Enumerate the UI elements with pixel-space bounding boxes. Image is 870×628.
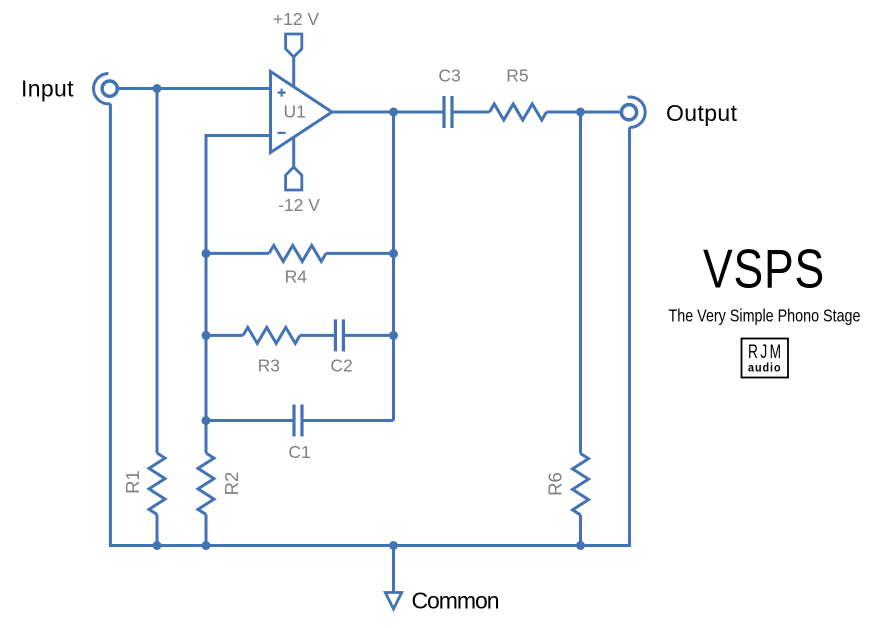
svg-text:U1: U1: [284, 102, 306, 122]
capacitor C3: [444, 96, 452, 128]
svg-text:R3: R3: [258, 355, 280, 375]
op-amp U1 plus input marker: [278, 89, 286, 97]
power flag -12V: [286, 167, 302, 190]
node input/R1 junction: [153, 84, 162, 93]
resistor R6: [573, 454, 589, 515]
node C2 right: [389, 331, 398, 340]
svg-text:C1: C1: [288, 442, 310, 462]
node R2 bottom: [202, 541, 211, 550]
svg-text:R2: R2: [221, 472, 242, 496]
wire R6 branch upper: [579, 112, 582, 454]
capacitor C1: [294, 405, 302, 437]
input connector J_in circle: [102, 81, 117, 96]
wire op-amp V- pin: [292, 138, 295, 167]
wire R2 lower: [205, 514, 208, 545]
node R3 left: [202, 331, 211, 340]
input connector J_in sleeve arc: [93, 74, 110, 104]
svg-text:C3: C3: [438, 65, 460, 85]
wire feedback right rail: [392, 112, 395, 421]
wire R4 left lead: [206, 252, 269, 255]
output connector J_out circle: [621, 105, 636, 120]
wire R3 to C2: [300, 334, 335, 337]
power flag +12V: [286, 34, 302, 57]
op-amp U1 triangle: [271, 72, 333, 153]
logo RJM audio box: [742, 339, 789, 378]
wire op-amp minus input to feedback rail: [206, 136, 271, 454]
svg-text:VSPS: VSPS: [703, 237, 825, 299]
wire C1 right lead: [302, 419, 394, 422]
node R1 bottom: [153, 541, 162, 550]
svg-text:-12 V: -12 V: [278, 195, 320, 215]
wire R6 lower: [579, 515, 582, 546]
wire R1 branch upper: [156, 89, 159, 454]
wire C1 left lead: [206, 419, 294, 422]
svg-text:R1: R1: [122, 470, 143, 494]
capacitor C2: [335, 319, 343, 351]
ground common triangle: [385, 593, 401, 610]
resistor R5: [490, 104, 547, 120]
wire ground run: input drop, bottom rail, output drop: [110, 104, 629, 546]
wire R5 to output connector: [547, 111, 620, 114]
resistor R1: [149, 453, 165, 514]
svg-text:C2: C2: [330, 355, 352, 375]
wire input to op-amp + input: [119, 87, 271, 90]
svg-text:+12 V: +12 V: [273, 9, 320, 29]
wire C3 to R5: [452, 111, 490, 114]
wire R3 left lead: [206, 334, 243, 337]
svg-text:R5: R5: [506, 65, 528, 85]
node R4 left: [202, 249, 211, 258]
wire common stub: [392, 546, 395, 593]
wire R1 branch lower: [156, 514, 159, 545]
wire op-amp output to C3: [332, 111, 444, 114]
svg-text:audio: audio: [748, 360, 782, 374]
svg-text:Input: Input: [21, 76, 74, 102]
resistor R3: [243, 327, 300, 343]
output connector J_out sleeve arc: [628, 97, 646, 127]
resistor R2: [198, 453, 214, 514]
node C1 left: [202, 416, 211, 425]
svg-text:The Very Simple Phono Stage: The Very Simple Phono Stage: [669, 306, 861, 326]
node R5/R6 junction: [576, 108, 585, 117]
node R6 bottom: [576, 541, 585, 550]
resistor R4: [269, 245, 326, 261]
wire R4 right lead: [326, 252, 394, 255]
op-amp U1 minus input marker: [278, 132, 286, 134]
node op-amp output junction: [389, 108, 398, 117]
svg-text:R4: R4: [285, 266, 308, 286]
svg-text:R6: R6: [545, 472, 566, 496]
node common junction: [389, 541, 398, 550]
node R4 right: [389, 249, 398, 258]
svg-text:Output: Output: [666, 100, 738, 126]
wire C2 right lead: [343, 334, 393, 337]
wire op-amp V+ pin: [292, 57, 295, 87]
svg-text:Common: Common: [412, 587, 500, 613]
